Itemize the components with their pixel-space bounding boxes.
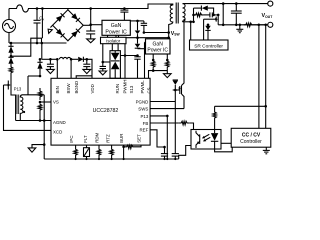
wire P13 net bbox=[150, 115, 167, 117]
core bbox=[17, 95, 19, 115]
wire bbox=[166, 116, 168, 159]
node bbox=[10, 55, 13, 58]
wire SET bbox=[136, 145, 141, 147]
wire GaN2 gate bbox=[138, 48, 146, 50]
node bbox=[39, 58, 42, 61]
wire PGND col bbox=[174, 85, 176, 154]
wire bbox=[11, 91, 16, 121]
capacitor C-REF bbox=[164, 147, 166, 154]
svg-text:AGND: AGND bbox=[53, 120, 66, 125]
opto phototransistor bbox=[199, 134, 201, 144]
node bbox=[122, 146, 125, 149]
wire XCD net bbox=[4, 85, 52, 130]
node bbox=[70, 58, 73, 61]
capacitor BIN bbox=[49, 59, 51, 64]
wire bbox=[114, 69, 116, 78]
block dual diode pack bbox=[110, 51, 120, 79]
wire AGND drop bbox=[43, 121, 45, 160]
svg-text:CX: CX bbox=[39, 16, 44, 22]
svg-text:SET: SET bbox=[136, 134, 141, 143]
wire clamp aux bbox=[130, 20, 144, 22]
svg-text:RDM: RDM bbox=[94, 132, 99, 142]
bridge rectifier D1 outline bbox=[53, 10, 84, 41]
wire bbox=[208, 8, 214, 15]
diode D6 bbox=[114, 51, 116, 53]
node bbox=[235, 2, 238, 5]
node bbox=[166, 115, 169, 118]
node bbox=[239, 24, 242, 27]
svg-text:XCD: XCD bbox=[53, 130, 62, 135]
wire bottom AC rail bbox=[9, 42, 67, 44]
resistor R14 opto bbox=[214, 106, 216, 109]
wire bbox=[10, 53, 12, 57]
wire SWS bbox=[150, 108, 184, 110]
wire bbox=[10, 43, 12, 46]
node bbox=[143, 31, 146, 34]
node bbox=[152, 59, 155, 62]
node bbox=[192, 14, 195, 17]
svg-text:Isolator: Isolator bbox=[106, 39, 121, 44]
node bbox=[49, 58, 52, 61]
transistor Q3 SWS FET bbox=[181, 86, 183, 95]
svg-text:GaN: GaN bbox=[153, 41, 164, 47]
node bbox=[152, 69, 155, 72]
core T1 bbox=[175, 3, 177, 24]
wire fb bus bbox=[215, 105, 266, 107]
resistor R5 shunt bbox=[166, 60, 170, 69]
wire BIN pin bbox=[56, 59, 58, 78]
block Isolator U3 bbox=[101, 37, 127, 43]
node bbox=[36, 42, 39, 45]
diode D3 bbox=[8, 57, 13, 64]
node bbox=[167, 36, 170, 39]
svg-text:PWMH: PWMH bbox=[122, 80, 127, 94]
ground VDD cap bbox=[83, 69, 91, 73]
wire bbox=[10, 76, 12, 79]
terminal VOUT+ bbox=[268, 1, 273, 6]
node bbox=[166, 158, 168, 160]
node bulk bbox=[89, 23, 92, 26]
resistor R8 FB bbox=[179, 121, 189, 125]
wire PWMH bbox=[124, 44, 126, 79]
node bbox=[43, 143, 46, 146]
node bbox=[75, 158, 77, 160]
node bbox=[98, 158, 100, 160]
node bbox=[258, 24, 261, 27]
node VS tap bbox=[39, 101, 42, 104]
wire bbox=[168, 33, 170, 39]
svg-text:BIN: BIN bbox=[55, 86, 60, 93]
capacitor snub bbox=[209, 12, 211, 17]
node bbox=[264, 105, 267, 108]
node bbox=[39, 75, 42, 78]
ground bulk bbox=[87, 39, 95, 43]
wire bbox=[11, 43, 31, 56]
svg-text:GaN: GaN bbox=[111, 23, 122, 29]
capacitor bulk bbox=[90, 25, 92, 31]
svg-text:IPC: IPC bbox=[69, 135, 74, 142]
svg-text:RTZ: RTZ bbox=[106, 134, 111, 143]
wire BUR bbox=[123, 145, 125, 159]
node bbox=[136, 54, 139, 57]
node bbox=[207, 24, 210, 27]
node bbox=[222, 24, 225, 27]
wire top AC/bulk rail bbox=[30, 4, 172, 9]
wire bbox=[107, 35, 109, 37]
wire PGND bbox=[150, 101, 175, 103]
resistor R1 bbox=[9, 64, 13, 76]
IC U1 UCC28782 body bbox=[51, 78, 150, 145]
node bbox=[235, 24, 238, 27]
diode D4 aux-BIN bbox=[39, 59, 41, 62]
opto LED D9 bbox=[214, 130, 216, 134]
wire bbox=[120, 55, 137, 57]
wire bbox=[8, 33, 10, 44]
block SR Controller U5 bbox=[190, 40, 229, 50]
svg-text:BSW: BSW bbox=[66, 83, 71, 94]
wire bbox=[166, 54, 168, 60]
svg-text:SWS: SWS bbox=[138, 106, 148, 111]
node bbox=[222, 2, 225, 5]
svg-text:BUR: BUR bbox=[119, 134, 124, 143]
svg-text:REF: REF bbox=[140, 128, 149, 133]
inductor aux winding bbox=[20, 95, 23, 121]
capacitor clamp2 bbox=[143, 21, 145, 23]
wire bbox=[166, 69, 168, 74]
wire bbox=[28, 75, 40, 77]
node bbox=[41, 42, 44, 45]
svg-text:VOUT: VOUT bbox=[262, 13, 274, 19]
wire bridge out bbox=[83, 24, 91, 26]
diode bridge upper-right bbox=[71, 13, 78, 20]
wire bbox=[254, 24, 268, 26]
wire opto out bbox=[221, 142, 231, 144]
svg-text:CC / CV: CC / CV bbox=[242, 133, 261, 139]
diode D10 SR bias bbox=[207, 24, 209, 27]
node bbox=[174, 89, 177, 92]
wire bbox=[67, 9, 69, 10]
transistor Q2 SR FET bbox=[217, 15, 219, 22]
wire clamp to Vsw bbox=[144, 32, 169, 34]
capacitor Cx bbox=[36, 9, 38, 21]
node bbox=[85, 158, 87, 160]
resistor R13 SET bbox=[124, 145, 136, 149]
node bbox=[111, 158, 113, 160]
wire bbox=[189, 123, 193, 130]
svg-text:P13: P13 bbox=[140, 114, 148, 119]
wire bbox=[111, 44, 113, 51]
thermistor RT1 FLT bbox=[86, 145, 88, 148]
node bridge-AC2-top bbox=[41, 7, 44, 10]
ground BIN cap bbox=[47, 69, 55, 73]
inductor T1 secondary bbox=[183, 4, 186, 22]
wire BIN line bbox=[42, 58, 58, 60]
svg-text:BGND: BGND bbox=[74, 81, 79, 94]
wire sec top bbox=[183, 3, 268, 5]
wire bbox=[222, 4, 224, 25]
wire CS bbox=[149, 71, 168, 79]
diode bridge lower-right bbox=[71, 31, 78, 38]
svg-text:P13: P13 bbox=[14, 86, 22, 91]
svg-text:SR Controller: SR Controller bbox=[194, 43, 223, 49]
svg-text:VSW: VSW bbox=[171, 31, 181, 37]
capacitor C-S13 bbox=[137, 56, 139, 57]
ground bridge-left (chassis arrow) bbox=[50, 25, 52, 27]
inductor L1 buck bbox=[59, 57, 70, 59]
resistor R9 IPC bbox=[75, 145, 77, 148]
diode D13 gate clamp bbox=[173, 79, 178, 81]
wire out gnd rail bbox=[218, 24, 266, 26]
resistor R7 out bbox=[244, 23, 254, 27]
node bbox=[86, 58, 89, 61]
node bbox=[56, 58, 59, 61]
wire bulk to clamp bbox=[91, 24, 102, 26]
wire bbox=[71, 58, 78, 60]
node bbox=[10, 42, 13, 45]
diode D2 bbox=[8, 46, 13, 53]
wire sec bottom bbox=[183, 21, 194, 23]
block GaN Power IC U4 bbox=[146, 39, 171, 54]
node bbox=[166, 59, 169, 62]
ground shunt bbox=[164, 74, 172, 78]
svg-text:Controller: Controller bbox=[240, 139, 262, 145]
node bbox=[102, 61, 105, 64]
wire REF bbox=[150, 130, 164, 147]
block GaN Power IC U2 bbox=[102, 20, 130, 35]
wire bbox=[116, 35, 169, 37]
capacitor clamp bbox=[123, 9, 125, 11]
wire bbox=[41, 9, 43, 39]
wire bbox=[102, 44, 104, 62]
node secondary phase dot bbox=[183, 19, 185, 21]
svg-text:CS: CS bbox=[146, 87, 151, 93]
node bbox=[136, 20, 139, 23]
svg-text:PWML: PWML bbox=[140, 80, 145, 94]
resistor R11 RTZ bbox=[111, 145, 113, 148]
svg-text:S13: S13 bbox=[129, 85, 134, 93]
resistor R3 VS lower bbox=[38, 104, 42, 112]
node bbox=[123, 7, 126, 10]
svg-text:UCC28782: UCC28782 bbox=[93, 108, 119, 114]
node bbox=[39, 119, 42, 122]
svg-text:PGND: PGND bbox=[136, 99, 149, 104]
capacitor Cout bbox=[235, 4, 237, 11]
node aux phase dot bbox=[23, 111, 25, 113]
wire BGND pin bbox=[76, 76, 92, 79]
wire bbox=[204, 14, 210, 16]
node bbox=[192, 21, 195, 24]
node bbox=[163, 146, 166, 149]
resistor R4 shunt bbox=[151, 60, 155, 69]
block CC/CV Controller U7 bbox=[231, 128, 271, 147]
diode D11 clamp bbox=[137, 21, 139, 30]
svg-text:Power IC: Power IC bbox=[105, 29, 127, 35]
wire VDD bbox=[83, 59, 92, 78]
node Vsw bbox=[167, 31, 170, 34]
wire SR gate bbox=[203, 19, 205, 40]
wire bbox=[193, 8, 195, 22]
node bbox=[43, 119, 46, 122]
node bbox=[124, 54, 127, 57]
wire fb sense 2 bbox=[265, 25, 267, 129]
svg-text:FLT: FLT bbox=[83, 135, 88, 143]
resistor R2 VS upper bbox=[39, 69, 41, 76]
diode D5 buck bbox=[78, 57, 83, 62]
wire bbox=[41, 43, 43, 59]
wire bbox=[32, 145, 44, 148]
resistor R6 snub bbox=[194, 13, 204, 17]
wire bbox=[194, 7, 202, 9]
node primary phase dot bbox=[170, 4, 172, 6]
wire SR sense bbox=[190, 22, 192, 40]
wire hop bracket bbox=[31, 38, 42, 43]
wire VS bbox=[40, 101, 51, 103]
wire opto emitter bbox=[179, 146, 191, 160]
diode bridge lower-left bbox=[56, 29, 63, 36]
wire bbox=[152, 69, 154, 71]
node bbox=[189, 21, 192, 24]
svg-text:RUN: RUN bbox=[115, 84, 120, 94]
ground output (earth) bbox=[239, 25, 241, 30]
ground AGND bbox=[28, 148, 36, 152]
wire bbox=[152, 54, 154, 60]
node bbox=[89, 7, 92, 10]
diode bridge upper-left bbox=[56, 15, 63, 22]
diode D8 SR snub bbox=[200, 6, 202, 11]
terminal VOUT- bbox=[268, 22, 273, 27]
node bbox=[174, 158, 176, 160]
wire bbox=[103, 61, 110, 63]
wire bbox=[217, 22, 219, 25]
wire bbox=[27, 76, 29, 95]
node bbox=[212, 14, 215, 17]
resistor R10 RDM bbox=[98, 145, 100, 148]
node Cx-top bbox=[36, 7, 39, 10]
wire fb sense 1 bbox=[258, 25, 260, 129]
wire FB bbox=[150, 122, 179, 124]
transistor Q1 P13 depletion FET bbox=[10, 79, 12, 91]
capacitor VDD bbox=[86, 59, 88, 64]
svg-text:VS: VS bbox=[53, 100, 59, 105]
AC source V1 bbox=[3, 20, 16, 33]
fuse F1 bbox=[9, 5, 30, 12]
wire PWML bbox=[144, 42, 146, 78]
opto light arrows bbox=[203, 134, 210, 138]
wire bottom rail bbox=[44, 158, 179, 160]
node bbox=[136, 36, 139, 39]
wire LED return bbox=[215, 147, 233, 152]
ground CC/CV (earth) bbox=[265, 147, 267, 150]
node bbox=[264, 24, 267, 27]
wire bbox=[8, 9, 10, 20]
ground iso bbox=[99, 71, 107, 75]
svg-text:FB: FB bbox=[143, 121, 149, 126]
capacitor C-PGND bbox=[172, 153, 179, 155]
node bbox=[123, 158, 125, 160]
svg-text:VDD: VDD bbox=[90, 84, 95, 93]
capacitor iso bbox=[102, 62, 104, 66]
inductor T1 primary bbox=[169, 4, 173, 33]
diode D12 clamp2 bbox=[137, 38, 139, 44]
node bbox=[217, 14, 220, 17]
diode D7 bbox=[111, 62, 120, 70]
optocoupler U6 box bbox=[191, 130, 221, 150]
wire AGND drop2 bbox=[43, 95, 45, 121]
wire BSW pin bbox=[70, 59, 72, 78]
node bbox=[163, 158, 165, 160]
svg-text:Power IC: Power IC bbox=[147, 48, 168, 54]
wire bbox=[90, 9, 92, 25]
wire aux gnd bbox=[16, 120, 51, 122]
